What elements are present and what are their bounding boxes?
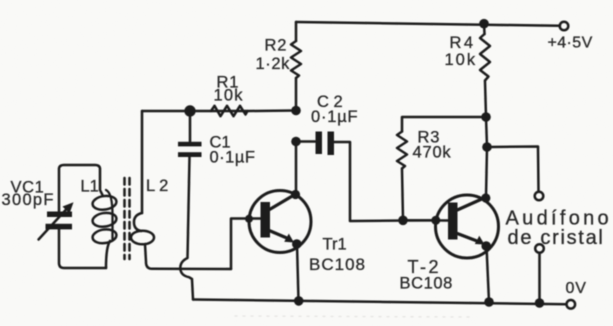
node C: C2 tap / collector feed: [291, 137, 301, 147]
svg-text:Tr1: Tr1: [323, 236, 347, 254]
wire: R2 bottom lead: [295, 78, 298, 111]
capacitor VC1 arrow: [39, 209, 68, 240]
svg-text:470k: 470k: [413, 144, 452, 162]
terminal: +4.5V circle: [560, 22, 569, 31]
wire: R4 bottom lead down to Tr2 collector: [485, 81, 487, 198]
resistor R3 top wire to R4 node: [402, 117, 486, 132]
wire: L2 bottom to base riser: [145, 244, 231, 269]
wire: earphone top terminal feed: [487, 147, 539, 192]
transistor Tr2 emitter stroke with arrow: [456, 233, 477, 241]
terminal: 0V circle: [567, 300, 576, 309]
node F: Tr1 emitter at ground rail: [294, 296, 304, 306]
svg-text:L1: L1: [81, 178, 99, 196]
node K: Tr2 collector junction: [481, 193, 490, 202]
wire: VC1 bottom lead and tank bottom: [59, 229, 106, 268]
inductor L1 loops: [106, 190, 113, 240]
resistor R4 zigzag: [480, 34, 490, 81]
wire: L1 bottom lead: [106, 241, 110, 268]
node M: Tr2 emitter at ground rail: [484, 297, 494, 307]
terminal: earphone bottom circle: [535, 244, 544, 253]
svg-text:BC108: BC108: [309, 255, 366, 274]
transistor Tr1 emitter stroke with arrow: [268, 230, 288, 239]
svg-text:300pF: 300pF: [2, 191, 55, 209]
capacitor C2 left lead: [296, 140, 315, 143]
resistor R2 zigzag: [291, 41, 301, 78]
svg-text:0·1µF: 0·1µF: [210, 149, 256, 167]
resistor R3 zigzag: [397, 132, 407, 169]
capacitor C1 plates: [178, 142, 202, 147]
capacitor VC1 top plate: [47, 212, 72, 218]
node D: Tr1 collector junction: [291, 190, 300, 199]
wire: top rail corner down to R2: [295, 22, 298, 41]
wire: earphone bottom terminal to ground rail: [538, 253, 541, 303]
wire: R1 horizontal wire: [142, 109, 296, 112]
transistor Tr2 circle: [436, 195, 499, 258]
wire: Tr2 base wire from R3 node: [403, 219, 449, 222]
transistor Tr2 base bar: [448, 203, 458, 240]
transformer core dashed lines: [123, 178, 126, 259]
capacitor VC1 bottom plate: [46, 224, 73, 230]
capacitor C1 bottom lead with hop over wire: [180, 157, 193, 300]
wire: Tr2 emitter drop to ground rail: [487, 246, 490, 302]
svg-text:10k: 10k: [214, 87, 244, 105]
svg-text:de cristal: de cristal: [508, 227, 605, 249]
inductor L2 loops: [134, 213, 142, 231]
scan smudge below ground rail: [235, 316, 470, 317]
transistor Tr1 collector stroke: [267, 195, 294, 211]
wire: 0V bottom ground rail: [193, 300, 566, 305]
svg-text:0·1µF: 0·1µF: [311, 108, 358, 126]
wire: Tr1 collector riser: [295, 142, 298, 195]
svg-text:L 2: L 2: [146, 177, 168, 195]
wire: left riser from R1 to coil L2 top: [141, 111, 144, 213]
capacitor C2 right lead to Tr2 base wire: [334, 142, 436, 221]
svg-text:BC108: BC108: [400, 275, 453, 293]
node N: earphone return at ground rail: [535, 298, 545, 308]
svg-text:+4·5V: +4·5V: [548, 35, 593, 52]
transistor Tr1 base bar: [261, 202, 271, 238]
svg-text:R4: R4: [450, 34, 476, 52]
svg-text:R2: R2: [265, 37, 288, 55]
wire: R4 top lead from supply rail: [483, 24, 486, 34]
resistor R1 zigzag: [211, 106, 248, 116]
node A: C1 tap on R1 wire: [184, 105, 195, 116]
node I: R4/R3 junction: [481, 112, 491, 122]
wire: Tr1 base riser: [231, 219, 262, 270]
transistor Tr1 circle: [249, 191, 311, 253]
svg-text:10k: 10k: [445, 51, 478, 69]
wire: +4.5V top supply rail: [296, 22, 560, 26]
capacitor C1 top lead: [189, 111, 192, 142]
svg-text:0V: 0V: [566, 280, 587, 297]
capacitor C2 plates: [316, 132, 323, 155]
node B: R1/R2 junction: [291, 106, 301, 116]
node J: earphone feed junction: [482, 142, 492, 152]
terminal: earphone top circle: [535, 192, 544, 201]
svg-text:1·2k: 1·2k: [256, 55, 291, 73]
node E: Tr1 emitter junction: [292, 239, 302, 249]
node L: Tr2 emitter junction: [481, 241, 491, 251]
transistor Tr2 collector stroke: [455, 198, 484, 211]
node G: R3 / Tr2 base junction: [398, 216, 408, 226]
node H: R4 top at supply rail: [479, 19, 489, 29]
node: Tr1 base wire entry blob: [245, 215, 253, 223]
wire: Tr1 emitter drop to ground rail: [297, 244, 299, 301]
wire: R3 bottom lead: [402, 169, 403, 221]
wire: VC1/L1 tank loop top and sides: [59, 165, 103, 212]
node: Tr2 base wire entry blob: [431, 216, 440, 225]
